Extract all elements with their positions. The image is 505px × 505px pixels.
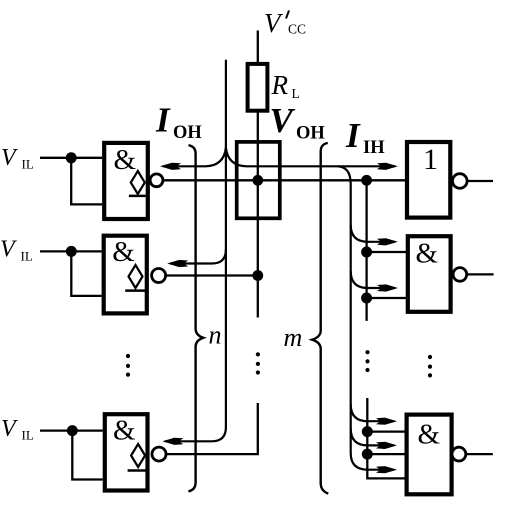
label VIL 3 bbox=[1, 416, 34, 443]
wire load1 output bbox=[467, 180, 493, 182]
driver gate 2 box bbox=[104, 236, 147, 314]
svg-text:V: V bbox=[1, 416, 18, 442]
flow curve driver2 bbox=[170, 250, 226, 264]
flow branch load3 input2 bbox=[351, 428, 394, 445]
load gate 3 box bbox=[407, 415, 452, 495]
resistor RL bbox=[248, 64, 268, 111]
driver2 AND label bbox=[112, 236, 135, 268]
wire center resume to driver 3 bbox=[166, 403, 258, 454]
flow branch load3 input1 bbox=[351, 404, 394, 421]
ellipsis center bbox=[256, 352, 260, 374]
wire load2 input1 bbox=[367, 251, 407, 253]
wire load2 output bbox=[467, 273, 494, 275]
wire load2 input2 bbox=[367, 297, 407, 299]
load3 AND label bbox=[418, 419, 441, 451]
svg-text:&: & bbox=[416, 238, 439, 270]
ellipsis right gate column bbox=[428, 355, 432, 378]
wire E top bbox=[365, 180, 367, 321]
svg-text:L: L bbox=[292, 86, 300, 101]
junction VIL3 bbox=[67, 425, 78, 436]
svg-text:&: & bbox=[113, 415, 136, 447]
svg-text:R: R bbox=[271, 70, 289, 100]
label RL bbox=[271, 70, 300, 101]
svg-text:IL: IL bbox=[22, 156, 34, 171]
flow arrow to driver1 (hop over B) bbox=[163, 148, 226, 167]
node VCC label bbox=[264, 8, 306, 38]
load gate 1 box bbox=[407, 142, 450, 218]
wire VCC to resistor bbox=[257, 31, 259, 63]
label VIL 1 bbox=[1, 145, 34, 171]
svg-text:I: I bbox=[345, 116, 361, 155]
wire E bottom into load3 bbox=[367, 398, 406, 478]
junction load2 input1 bbox=[361, 247, 372, 258]
svg-text:V: V bbox=[0, 237, 17, 263]
prime mark of VCC bbox=[286, 11, 289, 19]
svg-text:IL: IL bbox=[21, 248, 33, 263]
wire load3 output bbox=[466, 453, 493, 455]
svg-text:&: & bbox=[418, 419, 441, 451]
svg-text:&: & bbox=[114, 144, 137, 176]
flow branch load2 input1 bbox=[351, 225, 395, 242]
junction load3 input1 bbox=[362, 426, 373, 437]
driver1 AND label bbox=[114, 144, 137, 176]
junction bus-E bbox=[361, 175, 372, 186]
brace m bbox=[312, 143, 328, 494]
driver2 output bubble bbox=[152, 269, 166, 283]
load1 label 1 bbox=[423, 143, 438, 176]
junction VIL1 bbox=[66, 152, 77, 163]
svg-text:IH: IH bbox=[363, 138, 385, 158]
wire VIL2 bbox=[40, 251, 102, 296]
label VIL 2 bbox=[0, 237, 33, 264]
label IOH bbox=[155, 101, 202, 143]
svg-text:V: V bbox=[1, 145, 18, 171]
driver1 open-collector diamond bbox=[131, 171, 145, 194]
wire load3 input2 bbox=[367, 453, 406, 455]
junction driver2 output bbox=[252, 270, 263, 281]
node box bbox=[237, 142, 280, 218]
svg-text:&: & bbox=[112, 236, 135, 268]
wire center down bbox=[257, 180, 259, 317]
load2 output bubble bbox=[453, 268, 467, 282]
label n bbox=[209, 321, 222, 350]
junction load2 input2 bbox=[361, 293, 372, 304]
svg-text:OH: OH bbox=[173, 123, 202, 143]
flow line B bbox=[165, 60, 226, 442]
driver2 open-collector diamond bbox=[129, 265, 143, 288]
label IIH bbox=[345, 116, 385, 158]
wire main bus bbox=[163, 179, 405, 181]
svg-text:OH: OH bbox=[296, 123, 325, 143]
svg-text:n: n bbox=[209, 321, 222, 350]
arrowhead into load1 bbox=[377, 163, 398, 170]
load gate 2 box bbox=[408, 236, 451, 312]
flow branch load2 input2 bbox=[351, 271, 395, 288]
brace n bbox=[188, 145, 203, 491]
svg-text:m: m bbox=[284, 323, 303, 352]
load3 output bubble bbox=[452, 447, 466, 461]
driver gate 3 box bbox=[105, 414, 148, 490]
junction VIL2 bbox=[66, 246, 77, 257]
driver3 AND label bbox=[113, 415, 136, 447]
driver gate 1 box bbox=[104, 143, 148, 219]
junction load3 input2 bbox=[362, 449, 373, 460]
wire driver2 output bbox=[166, 274, 258, 276]
wire load3 input1 bbox=[367, 430, 406, 432]
svg-text:1: 1 bbox=[423, 143, 438, 176]
arrowhead driver3 flow bbox=[162, 438, 183, 445]
label m bbox=[284, 323, 303, 352]
svg-text:IL: IL bbox=[22, 428, 34, 443]
driver3 open-collector diamond bbox=[131, 444, 145, 467]
wire VIL3 bbox=[40, 431, 103, 480]
svg-text:V: V bbox=[270, 101, 296, 140]
ellipsis right bus bbox=[365, 350, 369, 372]
arrowhead load3 input3 bbox=[376, 466, 397, 473]
load2 AND label bbox=[416, 238, 439, 270]
flow line D bbox=[338, 166, 395, 469]
junction bus-center bbox=[252, 175, 263, 186]
wire VIL1 bbox=[40, 158, 102, 205]
svg-text:I: I bbox=[155, 101, 171, 140]
svg-text:CC: CC bbox=[288, 22, 306, 37]
wire resistor to node bbox=[257, 111, 259, 181]
load1 output bubble bbox=[453, 174, 468, 189]
ellipsis left column bbox=[126, 354, 130, 377]
driver3 output bubble bbox=[152, 447, 166, 461]
driver1 output bubble bbox=[150, 174, 163, 187]
label VOH bbox=[270, 101, 326, 143]
